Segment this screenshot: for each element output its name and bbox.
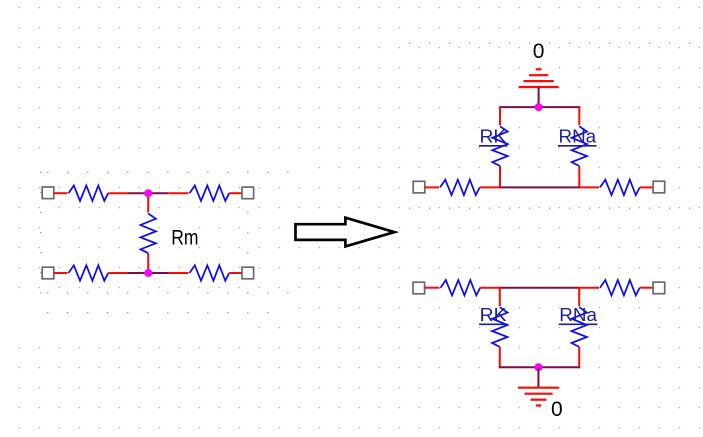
resistor RNa (top-right circuit, vertical) xyxy=(570,125,588,167)
resistor RK (bottom-right circuit, vertical) xyxy=(491,306,509,348)
resistor R8 (bottom-right circuit, right) xyxy=(599,279,641,297)
wire xyxy=(425,287,441,289)
terminal square P2 (left circuit, top-right) xyxy=(242,187,254,199)
resistor R6 (top-right circuit, right) xyxy=(599,178,641,196)
wire (vertical, junction A to Rm) xyxy=(147,193,149,213)
svg-text:RK: RK xyxy=(480,305,507,325)
wire xyxy=(229,192,242,194)
svg-text:RNa: RNa xyxy=(559,305,598,325)
terminal square P6 (top-right circuit, right) xyxy=(653,181,665,193)
wire xyxy=(640,186,653,188)
wire xyxy=(108,272,128,274)
wire (top rail, dark) xyxy=(499,106,580,108)
wire xyxy=(640,287,653,289)
wire xyxy=(229,272,242,274)
resistor R1 (left circuit top-left) xyxy=(68,184,110,202)
junction D (bottom-right circuit) xyxy=(534,363,542,371)
svg-text:0: 0 xyxy=(533,40,545,63)
resistor RNa (bottom-right circuit, vertical) xyxy=(570,306,588,348)
wire (overlap dark) xyxy=(128,272,168,274)
junction B (left circuit bottom) xyxy=(144,269,152,277)
wire xyxy=(579,287,600,289)
wire (bottom rail, dark) xyxy=(499,366,580,368)
terminal square P8 (bottom-right circuit, right) xyxy=(653,282,665,294)
wire xyxy=(168,272,189,274)
wire (RNa top pin) xyxy=(578,107,580,127)
terminal square P7 (bottom-right circuit, left) xyxy=(413,282,425,294)
terminal square P1 (left circuit, top-left) xyxy=(42,187,54,199)
svg-text:RK: RK xyxy=(480,127,507,147)
wire xyxy=(425,186,440,188)
selection dotted box around left circuit xyxy=(0,167,302,169)
junction C (top-right circuit) xyxy=(535,103,543,111)
wire xyxy=(168,192,189,194)
junction A (left circuit top) xyxy=(144,189,152,197)
wire (ground pin, dark) xyxy=(538,87,540,107)
wire (bottom rail, dark) xyxy=(500,186,579,188)
resistor Rm (vertical) xyxy=(139,213,157,255)
wire xyxy=(480,287,500,289)
wire (vertical, Rm to junction B) xyxy=(147,253,149,273)
resistor R2 (left circuit top-right) xyxy=(189,184,231,202)
wire (top rail, dark) xyxy=(500,287,579,289)
wire (RNa bottom pin) xyxy=(578,166,580,188)
resistor R3 (left circuit bottom-left) xyxy=(68,264,110,282)
wire (RK top pin) xyxy=(499,287,501,308)
wire (RK top pin) xyxy=(499,107,501,127)
terminal square P5 (top-right circuit, left) xyxy=(413,181,425,193)
svg-text:RNa: RNa xyxy=(559,127,598,147)
ground 0 (bottom) xyxy=(518,388,559,406)
wire (RNa top pin) xyxy=(578,287,580,308)
wire xyxy=(108,192,128,194)
wire (RNa bottom pin) xyxy=(578,347,580,368)
wire xyxy=(54,272,69,274)
svg-text:0: 0 xyxy=(551,398,563,421)
wire xyxy=(480,186,500,188)
resistor RK (top-right circuit, vertical) xyxy=(491,125,509,167)
block arrow xyxy=(296,218,395,247)
ground 0 (top, flipped) xyxy=(519,69,559,87)
resistor R4 (left circuit bottom-right) xyxy=(189,264,231,282)
wire (RK bottom pin) xyxy=(499,166,501,188)
terminal square P3 (left circuit, bottom-left) xyxy=(42,267,54,279)
svg-text:Rm: Rm xyxy=(171,225,198,249)
wire xyxy=(54,192,69,194)
resistor R5 (top-right circuit, left) xyxy=(439,178,481,196)
wire xyxy=(579,186,600,188)
resistor R7 (bottom-right circuit, left) xyxy=(440,279,482,297)
wire (ground pin, dark) xyxy=(537,367,539,387)
wire (RK bottom pin) xyxy=(499,347,501,368)
wire (overlap dark) xyxy=(128,192,168,194)
terminal square P4 (left circuit, bottom-right) xyxy=(242,267,254,279)
